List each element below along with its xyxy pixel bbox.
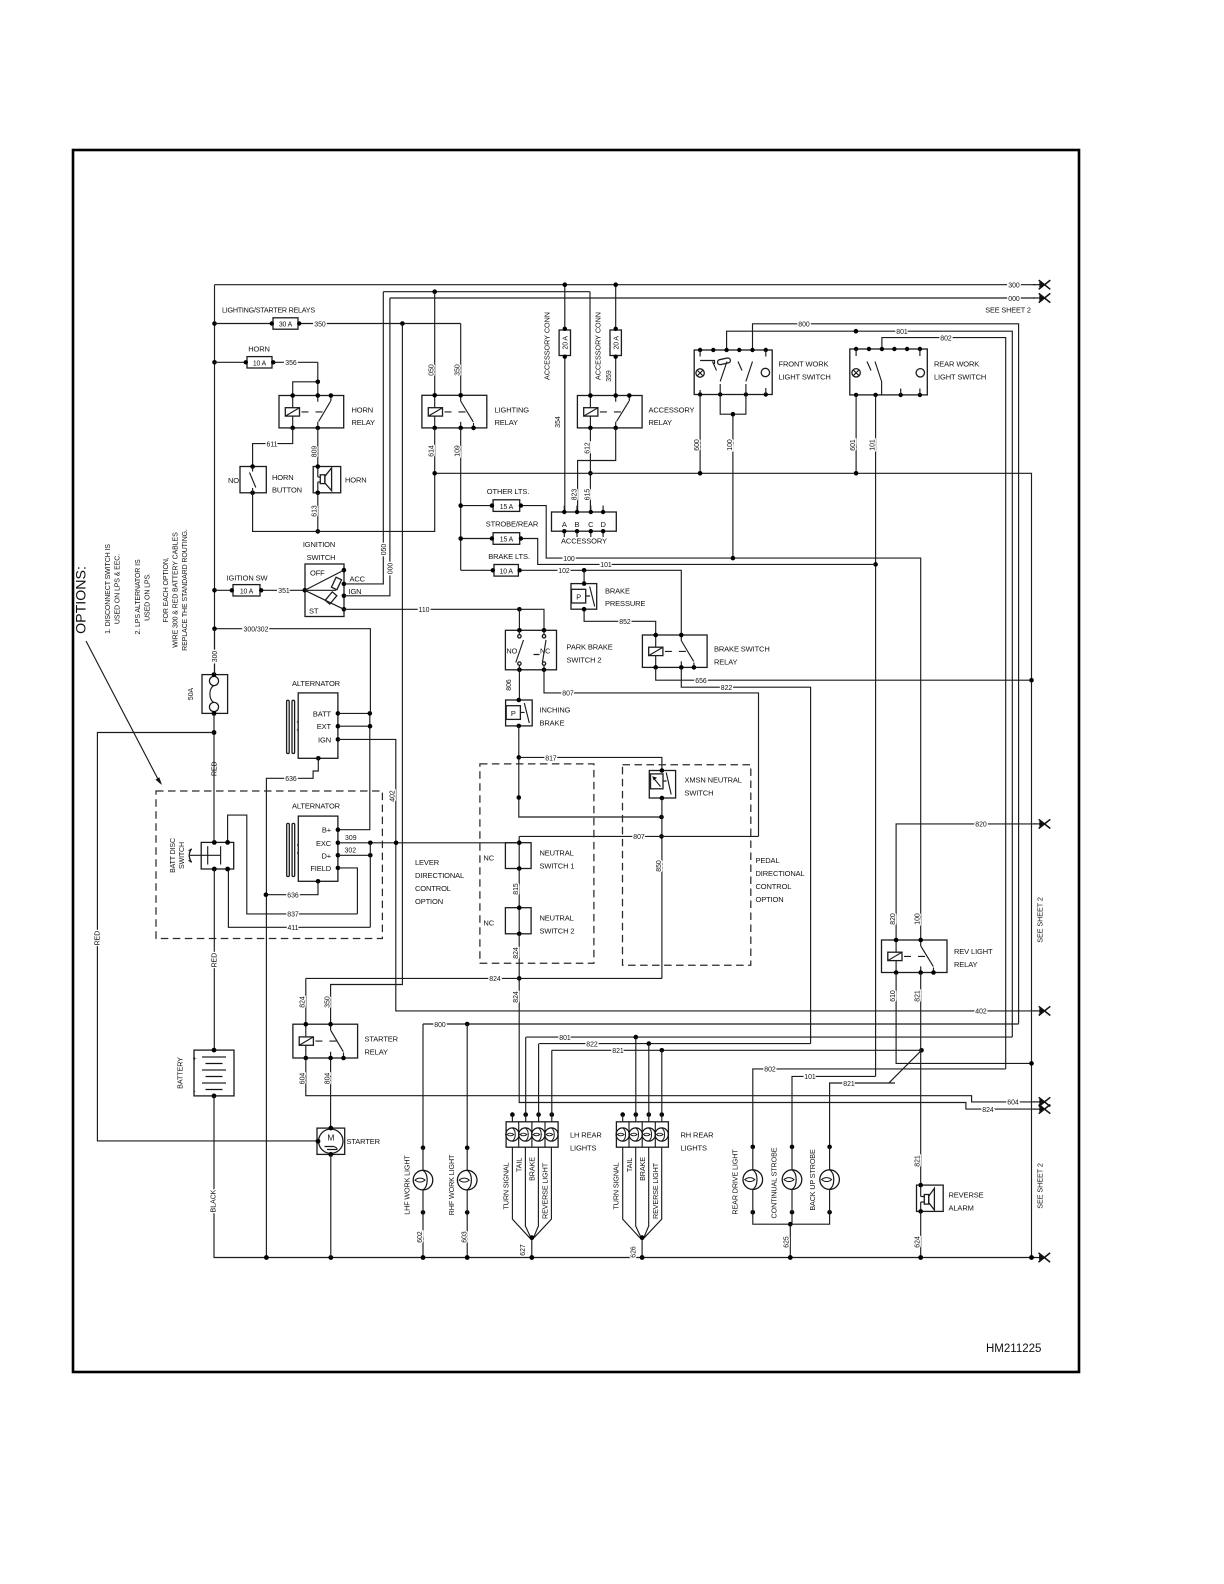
- svg-text:300: 300: [1008, 283, 1020, 290]
- svg-text:821: 821: [915, 1155, 922, 1167]
- svg-text:CONTROL: CONTROL: [415, 884, 451, 893]
- switch INCHING BRAKE: [506, 698, 571, 729]
- svg-text:IGN: IGN: [318, 735, 331, 744]
- RH REAR LIGHTS gang: [612, 1037, 715, 1260]
- svg-text:CONTROL: CONTROL: [756, 882, 792, 891]
- svg-text:850: 850: [656, 860, 663, 872]
- svg-text:M: M: [327, 1133, 334, 1143]
- wire 050 to accessory relay coil: [589, 292, 591, 396]
- wire 822 bottom run: [539, 1041, 810, 1048]
- svg-text:820: 820: [975, 822, 987, 829]
- off-sheet X 402: [1034, 1006, 1051, 1015]
- wire ACC: [344, 292, 383, 584]
- riser EXC/D+/411: [369, 843, 371, 928]
- svg-text:LIGHTS: LIGHTS: [681, 1144, 707, 1153]
- off-sheet X 820: [1034, 819, 1051, 828]
- svg-text:BRAKE: BRAKE: [540, 719, 565, 728]
- svg-text:BRAKE: BRAKE: [605, 586, 630, 595]
- lamp BACK UP STROBE: [790, 1145, 839, 1225]
- svg-text:604: 604: [300, 1073, 307, 1085]
- wire RHF drop: [466, 1024, 468, 1148]
- svg-text:BACK UP STROBE: BACK UP STROBE: [808, 1149, 817, 1211]
- svg-text:822: 822: [586, 1041, 598, 1048]
- alternator lower: [287, 802, 341, 884]
- svg-text:636: 636: [287, 893, 299, 900]
- svg-text:EXT: EXT: [317, 722, 332, 731]
- wire 613: [311, 493, 320, 534]
- svg-text:20 A: 20 A: [614, 336, 621, 350]
- svg-text:BATTERY: BATTERY: [176, 1057, 185, 1089]
- svg-text:824: 824: [300, 996, 307, 1008]
- switch FRONT WORK LIGHT SWITCH: [694, 348, 830, 397]
- svg-text:RED: RED: [212, 761, 219, 776]
- wire RED left branch: [95, 733, 317, 1141]
- svg-text:-: -: [193, 1087, 196, 1096]
- svg-text:DIRECTIONAL: DIRECTIONAL: [756, 869, 805, 878]
- svg-text:10 A: 10 A: [240, 588, 254, 595]
- svg-text:601: 601: [850, 439, 857, 451]
- svg-text:821: 821: [915, 990, 922, 1002]
- off-sheet X 000: [1034, 293, 1051, 302]
- svg-text:ALARM: ALARM: [949, 1204, 974, 1213]
- fuse BRAKE LTS 10 A: [461, 565, 682, 636]
- wire 804: [325, 1058, 332, 1128]
- svg-text:NC: NC: [483, 919, 494, 928]
- LH REAR LIGHTS gang: [501, 1037, 602, 1260]
- wire 807 lower: [519, 834, 758, 843]
- svg-text:824: 824: [513, 947, 520, 959]
- dashed box LEVER OPTION: [480, 764, 594, 963]
- svg-text:656: 656: [695, 678, 707, 685]
- wire 817: [517, 726, 664, 819]
- svg-text:20 A: 20 A: [563, 336, 570, 350]
- wire 109: [455, 428, 462, 570]
- svg-text:NC: NC: [483, 854, 494, 863]
- svg-text:50A: 50A: [188, 687, 195, 700]
- svg-text:000: 000: [1008, 296, 1020, 303]
- wire 350 to starter relay: [325, 324, 403, 1025]
- svg-text:STARTER: STARTER: [365, 1035, 399, 1044]
- svg-text:350: 350: [455, 364, 462, 376]
- svg-text:ACC: ACC: [350, 574, 366, 583]
- svg-text:110: 110: [419, 607, 430, 614]
- label 300 riser: [212, 629, 219, 675]
- svg-text:15 A: 15 A: [500, 537, 514, 544]
- motor STARTER: [316, 1126, 381, 1157]
- off-sheet X 824: [1034, 1105, 1051, 1114]
- svg-text:SWITCH: SWITCH: [685, 789, 714, 798]
- lamp RHF WORK LIGHT: [447, 1146, 477, 1260]
- wire 821 from relay: [915, 973, 922, 1186]
- wire 801 bottom run: [526, 1035, 1012, 1042]
- svg-text:603: 603: [461, 1231, 468, 1243]
- relay ACCESSORY RELAY: [577, 393, 694, 430]
- svg-text:REAR DRIVE LIGHT: REAR DRIVE LIGHT: [730, 1149, 739, 1215]
- svg-text:624: 624: [915, 1236, 922, 1248]
- svg-text:611: 611: [267, 441, 278, 448]
- svg-text:RHF WORK LIGHT: RHF WORK LIGHT: [447, 1154, 456, 1215]
- svg-text:LEVER: LEVER: [415, 858, 440, 867]
- svg-text:SEE SHEET 2: SEE SHEET 2: [1036, 897, 1045, 943]
- svg-text:XMSN NEUTRAL: XMSN NEUTRAL: [685, 776, 742, 785]
- svg-text:IGITION SW: IGITION SW: [227, 574, 269, 583]
- svg-text:INCHING: INCHING: [540, 706, 571, 715]
- wire 821 bottom run: [552, 1048, 924, 1055]
- svg-text:815: 815: [513, 883, 520, 895]
- wire 802 bottom: [753, 1067, 1006, 1147]
- svg-text:402: 402: [390, 790, 397, 802]
- svg-text:402: 402: [975, 1009, 987, 1016]
- wire 815: [513, 869, 520, 908]
- svg-text:614: 614: [429, 445, 436, 457]
- svg-text:2. LPS ALTERNATOR IS: 2. LPS ALTERNATOR IS: [135, 559, 142, 634]
- wire 302 D+: [338, 848, 373, 858]
- fuse HORN 10 A: [215, 357, 318, 368]
- svg-text:807: 807: [633, 834, 645, 841]
- page border frame: [73, 150, 1079, 1372]
- switch REAR WORK LIGHT SWITCH: [850, 347, 986, 397]
- svg-text:000: 000: [387, 563, 394, 575]
- wire 102 label: [558, 568, 586, 575]
- svg-text:050: 050: [381, 544, 388, 556]
- wire IGN to 402 riser: [338, 739, 1035, 1011]
- svg-text:RED: RED: [95, 931, 102, 946]
- svg-text:351: 351: [278, 588, 290, 595]
- switch HORN BUTTON: [228, 464, 302, 495]
- OPTIONS: heading (rotated): [74, 566, 90, 634]
- svg-text:FIELD: FIELD: [310, 864, 331, 873]
- svg-text:822: 822: [721, 685, 733, 692]
- wire 809: [311, 428, 318, 467]
- lamp LHF WORK LIGHT: [403, 1146, 433, 1260]
- wire 822: [681, 667, 810, 1043]
- wire 356: [285, 360, 320, 395]
- switch BATT DISC SWITCH: [170, 838, 234, 873]
- wire 601: [850, 395, 857, 473]
- switch IGNITION SWITCH: [303, 564, 347, 617]
- svg-text:821: 821: [843, 1081, 855, 1088]
- battery BATTERY: [176, 1048, 235, 1099]
- svg-text:PARK BRAKE: PARK BRAKE: [567, 643, 613, 652]
- svg-text:BRAKE LTS.: BRAKE LTS.: [488, 552, 530, 561]
- svg-text:OFF: OFF: [310, 569, 325, 578]
- svg-text:101: 101: [870, 439, 877, 451]
- fuse 50A: [188, 672, 228, 716]
- svg-text:102: 102: [558, 568, 570, 575]
- fuse IGITION SW 10 A: [215, 585, 305, 596]
- svg-text:615: 615: [585, 489, 592, 501]
- svg-text:109: 109: [455, 445, 462, 457]
- svg-text:600: 600: [694, 439, 701, 451]
- svg-text:610: 610: [890, 990, 897, 1002]
- svg-text:HM211225: HM211225: [986, 1343, 1041, 1355]
- node bus 636: [264, 1255, 269, 1260]
- wire horn button to 614 run: [253, 473, 435, 531]
- svg-text:SEE SHEET 2: SEE SHEET 2: [1036, 1163, 1045, 1209]
- svg-text:SWITCH 2: SWITCH 2: [567, 656, 602, 665]
- off-sheet X 300: [1034, 280, 1051, 289]
- svg-text:FOR EACH OPTION,: FOR EACH OPTION,: [163, 557, 170, 622]
- svg-text:REVERSE: REVERSE: [949, 1191, 984, 1200]
- svg-text:ACCESSORY: ACCESSORY: [561, 537, 607, 546]
- svg-text:817: 817: [545, 755, 557, 762]
- wire 807 upper: [544, 670, 759, 837]
- svg-text:350: 350: [314, 321, 326, 328]
- relay LIGHTING RELAY: [422, 393, 529, 430]
- svg-text:LIGHTING/STARTER RELAYS: LIGHTING/STARTER RELAYS: [222, 306, 315, 315]
- fuse OTHER LTS 15 A: [458, 500, 920, 940]
- wire 300/302: [212, 626, 370, 713]
- svg-text:613: 613: [311, 505, 318, 517]
- connector ACCESSORY: [552, 506, 617, 546]
- dashed box PEDAL OPTION: [623, 765, 751, 966]
- svg-text:BUTTON: BUTTON: [272, 485, 302, 494]
- svg-text:604: 604: [1007, 1100, 1019, 1107]
- svg-text:359: 359: [606, 370, 613, 382]
- svg-text:612: 612: [584, 442, 591, 454]
- svg-text:309: 309: [345, 835, 357, 842]
- wire 800 top: [753, 322, 1019, 1024]
- wire FIELD to 837: [338, 868, 358, 914]
- off-sheet X 604: [1034, 1097, 1051, 1106]
- svg-text:A: A: [562, 520, 567, 529]
- wire 611: [253, 428, 293, 467]
- svg-text:050: 050: [429, 364, 436, 376]
- svg-text:BATT DISC: BATT DISC: [170, 838, 177, 873]
- wire 101 bottom: [792, 1074, 876, 1147]
- svg-text:300/302: 300/302: [244, 627, 269, 634]
- svg-text:HORN: HORN: [248, 344, 270, 353]
- node 30A feed: [212, 321, 217, 326]
- svg-text:BRAKE: BRAKE: [638, 1157, 647, 1181]
- lamp CONTINUAL STROBE: [770, 1145, 802, 1260]
- svg-text:STROBE/REAR: STROBE/REAR: [486, 520, 539, 529]
- svg-text:823: 823: [572, 489, 579, 501]
- svg-text:LIGHT SWITCH: LIGHT SWITCH: [779, 373, 831, 382]
- svg-text:HORN: HORN: [352, 406, 374, 415]
- fuse 30 A: [215, 318, 403, 329]
- svg-text:SWITCH: SWITCH: [307, 553, 336, 562]
- svg-text:OPTION: OPTION: [415, 897, 443, 906]
- svg-text:USED ON LPS & EEC.: USED ON LPS & EEC.: [115, 554, 122, 624]
- svg-text:RELAY: RELAY: [495, 418, 519, 427]
- node 050 to lighting relay: [432, 289, 437, 294]
- svg-text:RELAY: RELAY: [352, 418, 376, 427]
- svg-text:820: 820: [890, 913, 897, 925]
- svg-text:NEUTRAL: NEUTRAL: [540, 849, 574, 858]
- svg-text:806: 806: [506, 679, 513, 691]
- svg-text:302: 302: [345, 848, 357, 855]
- wire RED main drop: [212, 713, 219, 1050]
- alarm REVERSE ALARM: [915, 1183, 984, 1260]
- wire 823 hook from relay: [578, 428, 616, 512]
- svg-text:837: 837: [287, 912, 299, 919]
- svg-text:RELAY: RELAY: [365, 1048, 389, 1057]
- switch BRAKE PRESSURE: [571, 570, 656, 635]
- svg-text:RELAY: RELAY: [714, 658, 738, 667]
- wire 101 from rear switch: [870, 395, 878, 1077]
- wire 350 label: [314, 321, 460, 328]
- svg-text:ACCESSORY CONN: ACCESSORY CONN: [543, 312, 552, 380]
- wire 110 from ST: [344, 607, 522, 614]
- svg-text:100: 100: [915, 913, 922, 925]
- node bus starter: [328, 1255, 333, 1260]
- svg-text:SWITCH 2: SWITCH 2: [540, 927, 575, 936]
- svg-text:627: 627: [520, 1244, 527, 1256]
- svg-text:ACCESSORY: ACCESSORY: [649, 406, 695, 415]
- svg-text:FRONT WORK: FRONT WORK: [779, 360, 829, 369]
- svg-text:354: 354: [555, 416, 562, 428]
- wire 802 top: [882, 335, 1006, 1069]
- svg-text:IGN: IGN: [349, 587, 362, 596]
- svg-text:300: 300: [212, 651, 219, 663]
- svg-text:100: 100: [727, 439, 734, 451]
- svg-text:10 A: 10 A: [253, 360, 267, 367]
- relay STARTER RELAY: [293, 1022, 399, 1060]
- svg-text:LH REAR: LH REAR: [570, 1131, 602, 1140]
- svg-text:800: 800: [434, 1022, 446, 1029]
- wire 614: [429, 428, 436, 473]
- svg-text:TAIL: TAIL: [515, 1158, 524, 1172]
- svg-text:+: +: [193, 1056, 197, 1063]
- label LEVER DIRECTIONAL CONTROL OPTION: [415, 858, 464, 906]
- svg-text:BRAKE SWITCH: BRAKE SWITCH: [714, 645, 770, 654]
- svg-text:B: B: [575, 520, 580, 529]
- wire 824 from NS2: [513, 934, 1035, 1109]
- fuse 20 A no.2: [610, 282, 621, 395]
- svg-text:NC: NC: [540, 647, 550, 656]
- wire 300 top bus: [215, 283, 1036, 290]
- wire 612: [584, 428, 592, 512]
- svg-text:REAR WORK: REAR WORK: [934, 360, 979, 369]
- switch PARK BRAKE SWITCH 2: [505, 609, 612, 672]
- wire 801 top: [727, 329, 1013, 1037]
- wire 000 top: [390, 296, 1035, 303]
- svg-text:NO: NO: [228, 476, 239, 485]
- wire 837: [228, 815, 358, 919]
- svg-text:101: 101: [600, 562, 612, 569]
- svg-text:821: 821: [612, 1048, 624, 1055]
- svg-text:RH REAR: RH REAR: [681, 1131, 715, 1140]
- svg-text:801: 801: [896, 329, 908, 336]
- wire 411: [228, 869, 370, 932]
- node horn feed: [212, 360, 217, 365]
- svg-text:TURN SIGNAL: TURN SIGNAL: [501, 1162, 510, 1209]
- svg-text:809: 809: [311, 446, 318, 458]
- label PEDAL DIRECTIONAL CONTROL OPTION: [756, 856, 805, 904]
- wire 050 drop: [429, 292, 436, 396]
- fuse 20 A no.1: [559, 282, 570, 512]
- svg-text:626: 626: [630, 1246, 637, 1258]
- svg-text:350: 350: [325, 996, 332, 1008]
- svg-text:REVERSE LIGHT: REVERSE LIGHT: [651, 1162, 660, 1219]
- svg-text:636: 636: [285, 776, 297, 783]
- svg-text:802: 802: [940, 335, 952, 342]
- wire 610: [890, 973, 1034, 1066]
- svg-text:804: 804: [325, 1073, 332, 1085]
- svg-text:D+: D+: [321, 851, 331, 860]
- svg-text:BATT: BATT: [313, 709, 332, 718]
- svg-text:411: 411: [288, 925, 299, 932]
- svg-text:602: 602: [417, 1231, 424, 1243]
- svg-text:ALTERNATOR: ALTERNATOR: [292, 679, 341, 688]
- svg-text:NEUTRAL: NEUTRAL: [540, 914, 574, 923]
- svg-text:LIGHT SWITCH: LIGHT SWITCH: [934, 373, 986, 382]
- off-sheet X ground bus: [1033, 1253, 1050, 1262]
- svg-text:NO: NO: [507, 647, 518, 656]
- svg-text:101: 101: [804, 1074, 816, 1081]
- svg-text:PRESSURE: PRESSURE: [605, 599, 645, 608]
- dashed box BATT DISC OPTION: [156, 791, 382, 939]
- svg-text:SWITCH 1: SWITCH 1: [540, 862, 575, 871]
- node 350/402: [400, 321, 405, 326]
- svg-text:OPTIONS:: OPTIONS:: [74, 566, 90, 634]
- svg-text:HORN: HORN: [272, 473, 294, 482]
- svg-text:RELAY: RELAY: [954, 960, 978, 969]
- wire 050 top: [383, 291, 590, 293]
- wire 604 from starter relay: [300, 1058, 1035, 1107]
- svg-text:SEE SHEET 2: SEE SHEET 2: [985, 306, 1031, 315]
- svg-text:WIRE 300 & RED BATTERY: WIRE 300 & RED BATTERY CABLES: [173, 532, 180, 648]
- svg-text:LIGHTING: LIGHTING: [495, 406, 530, 415]
- relay BRAKE SWITCH RELAY: [642, 633, 769, 670]
- svg-text:B+: B+: [322, 826, 332, 835]
- svg-text:PEDAL: PEDAL: [756, 856, 780, 865]
- svg-text:RED: RED: [212, 953, 219, 968]
- svg-text:824: 824: [982, 1107, 994, 1114]
- svg-text:10 A: 10 A: [500, 569, 514, 576]
- svg-text:801: 801: [559, 1035, 571, 1042]
- svg-text:BRAKE: BRAKE: [528, 1157, 537, 1181]
- svg-text:STARTER: STARTER: [347, 1137, 381, 1146]
- svg-text:ALTERNATOR: ALTERNATOR: [292, 802, 341, 811]
- svg-text:CONTINUAL STROBE: CONTINUAL STROBE: [770, 1147, 779, 1218]
- svg-text:852: 852: [619, 619, 631, 626]
- node bus right: [1029, 1255, 1034, 1260]
- wire BLACK: [210, 1096, 1035, 1258]
- wire BATT to 300/302 riser: [338, 711, 372, 830]
- svg-text:ST: ST: [309, 607, 319, 616]
- wire 636 lower: [264, 881, 318, 899]
- wire 656: [656, 667, 1034, 685]
- svg-text:TAIL: TAIL: [625, 1158, 634, 1172]
- horn speaker HORN: [313, 464, 366, 495]
- svg-text:REV LIGHT: REV LIGHT: [954, 947, 993, 956]
- svg-text:ACCESSORY CONN: ACCESSORY CONN: [594, 312, 603, 380]
- svg-text:IGNITION: IGNITION: [303, 540, 335, 549]
- switch NEUTRAL SWITCH 1: [483, 840, 574, 870]
- switch XMSN NEUTRAL SWITCH: [649, 768, 742, 800]
- wire 309 EXC: [338, 835, 519, 845]
- svg-text:DIRECTIONAL: DIRECTIONAL: [415, 871, 464, 880]
- svg-text:REVERSE LIGHT: REVERSE LIGHT: [541, 1162, 550, 1219]
- svg-text:OTHER LTS.: OTHER LTS.: [487, 487, 529, 496]
- svg-text:REPLACE THE STANDARD ROUTING.: REPLACE THE STANDARD ROUTING.: [182, 529, 189, 651]
- wire 800 bottom run: [423, 1022, 1019, 1148]
- svg-text:625: 625: [783, 1236, 790, 1248]
- svg-text:TURN SIGNAL: TURN SIGNAL: [612, 1162, 621, 1209]
- relay REV LIGHT RELAY: [882, 938, 994, 975]
- lamp REAR DRIVE LIGHT: [730, 1145, 790, 1225]
- wire starter to bus: [330, 1154, 332, 1257]
- svg-text:OPTION: OPTION: [756, 895, 784, 904]
- options pointer arrow to dashed box: [86, 641, 162, 785]
- svg-text:807: 807: [562, 691, 574, 698]
- svg-text:1. DISCONNECT SWITCH IS: 1. DISCONNECT SWITCH IS: [105, 544, 112, 634]
- svg-text:P: P: [511, 709, 516, 718]
- svg-text:802: 802: [764, 1067, 776, 1074]
- wire 821 diagonal: [830, 1050, 922, 1147]
